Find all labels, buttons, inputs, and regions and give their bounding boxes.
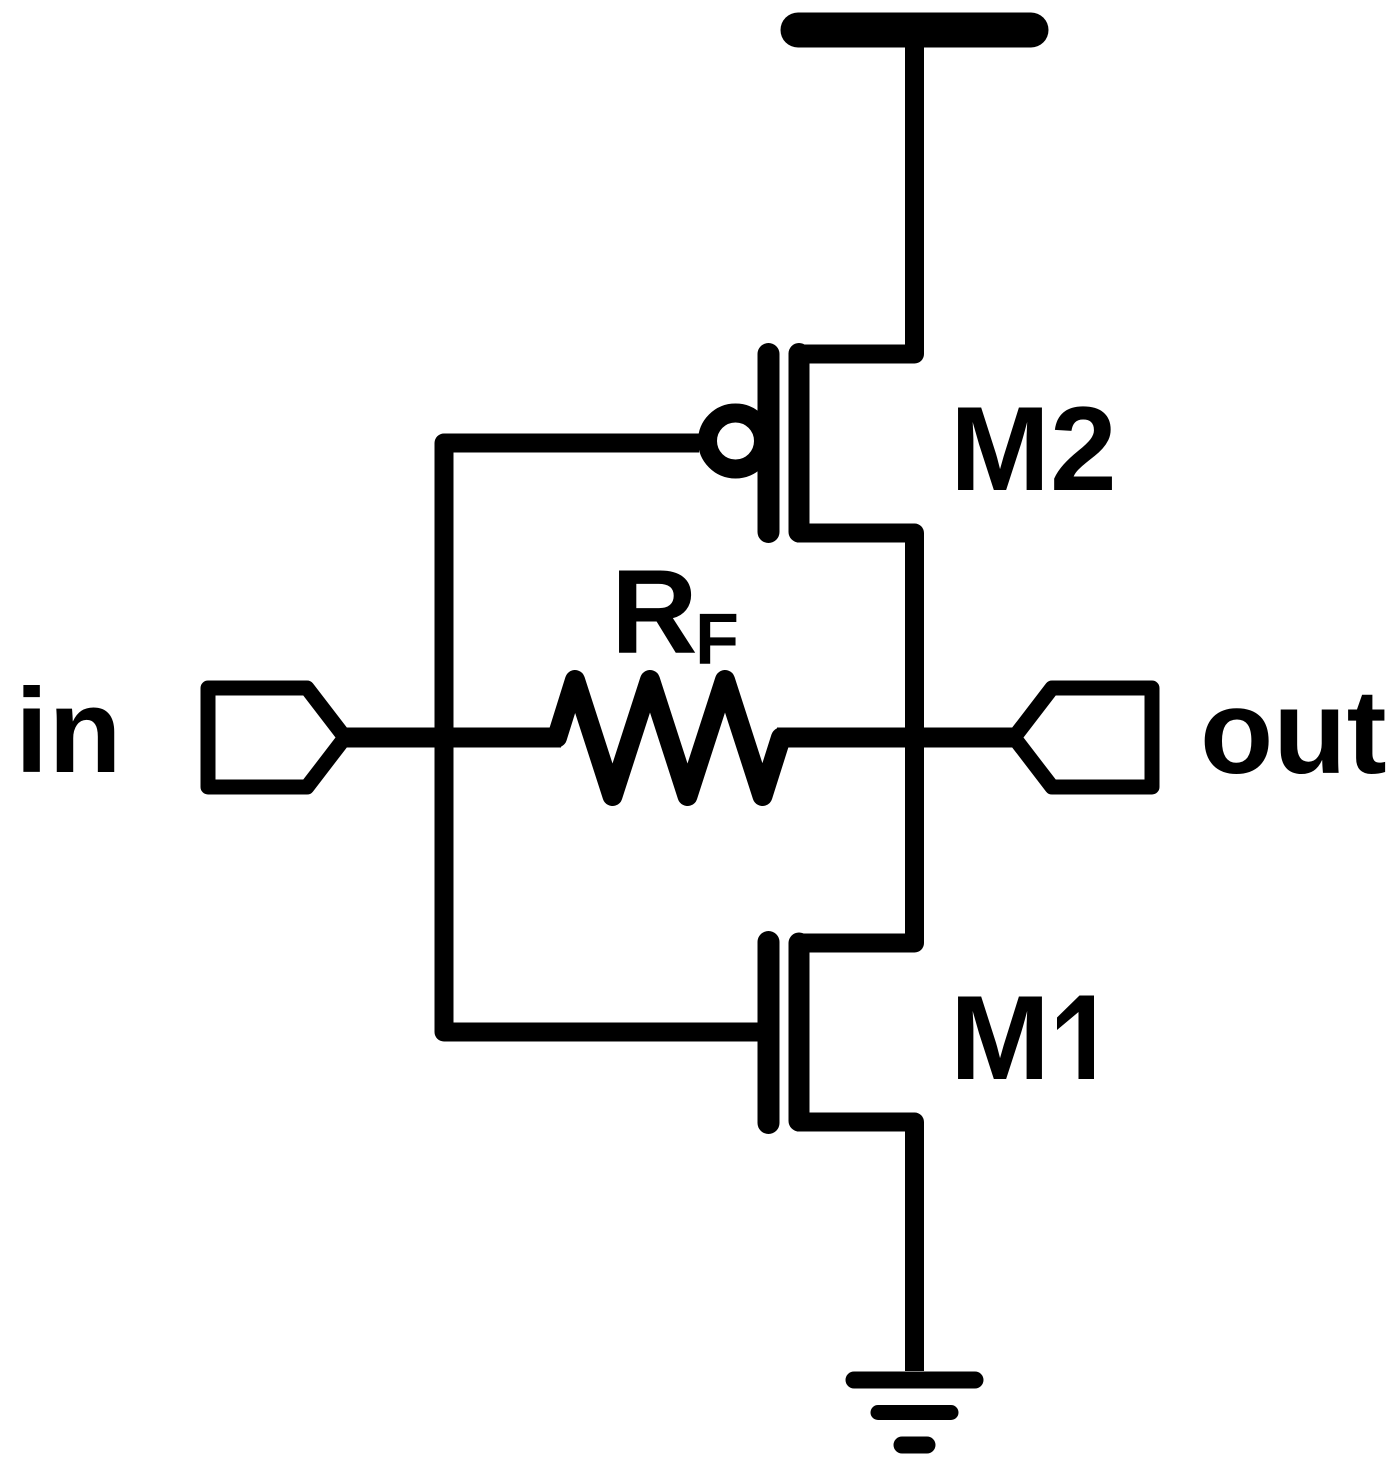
port out (1014, 688, 1152, 787)
svg-text:F: F (695, 600, 739, 680)
transistor M2 (PMOS) gate bar (758, 354, 780, 532)
wire resistor to output node to out port (777, 728, 1014, 748)
transistor M2 gate bubble (708, 413, 764, 469)
svg-text:M2: M2 (950, 382, 1117, 516)
wire VDD to M2 source (797, 30, 915, 354)
wire M1 source to ground (797, 1122, 915, 1371)
svg-text:M: M (950, 971, 1050, 1105)
transistor M2 channel bar (789, 354, 810, 533)
port in (208, 688, 345, 787)
transistor M1 channel bar (789, 943, 810, 1121)
transistor M1 (NMOS) gate bar (758, 942, 780, 1123)
wire in port to input node (345, 728, 561, 748)
wire feedback bus: M2 gate to input node to M1 gate (444, 443, 760, 1032)
svg-text:R: R (611, 545, 698, 679)
svg-text:in: in (15, 664, 122, 798)
wire M2 drain to output node to M1 drain (797, 533, 915, 943)
power rail VDD (798, 13, 1031, 48)
resistor RF (557, 680, 781, 796)
ground (854, 1380, 975, 1445)
svg-text:out: out (1200, 665, 1387, 799)
